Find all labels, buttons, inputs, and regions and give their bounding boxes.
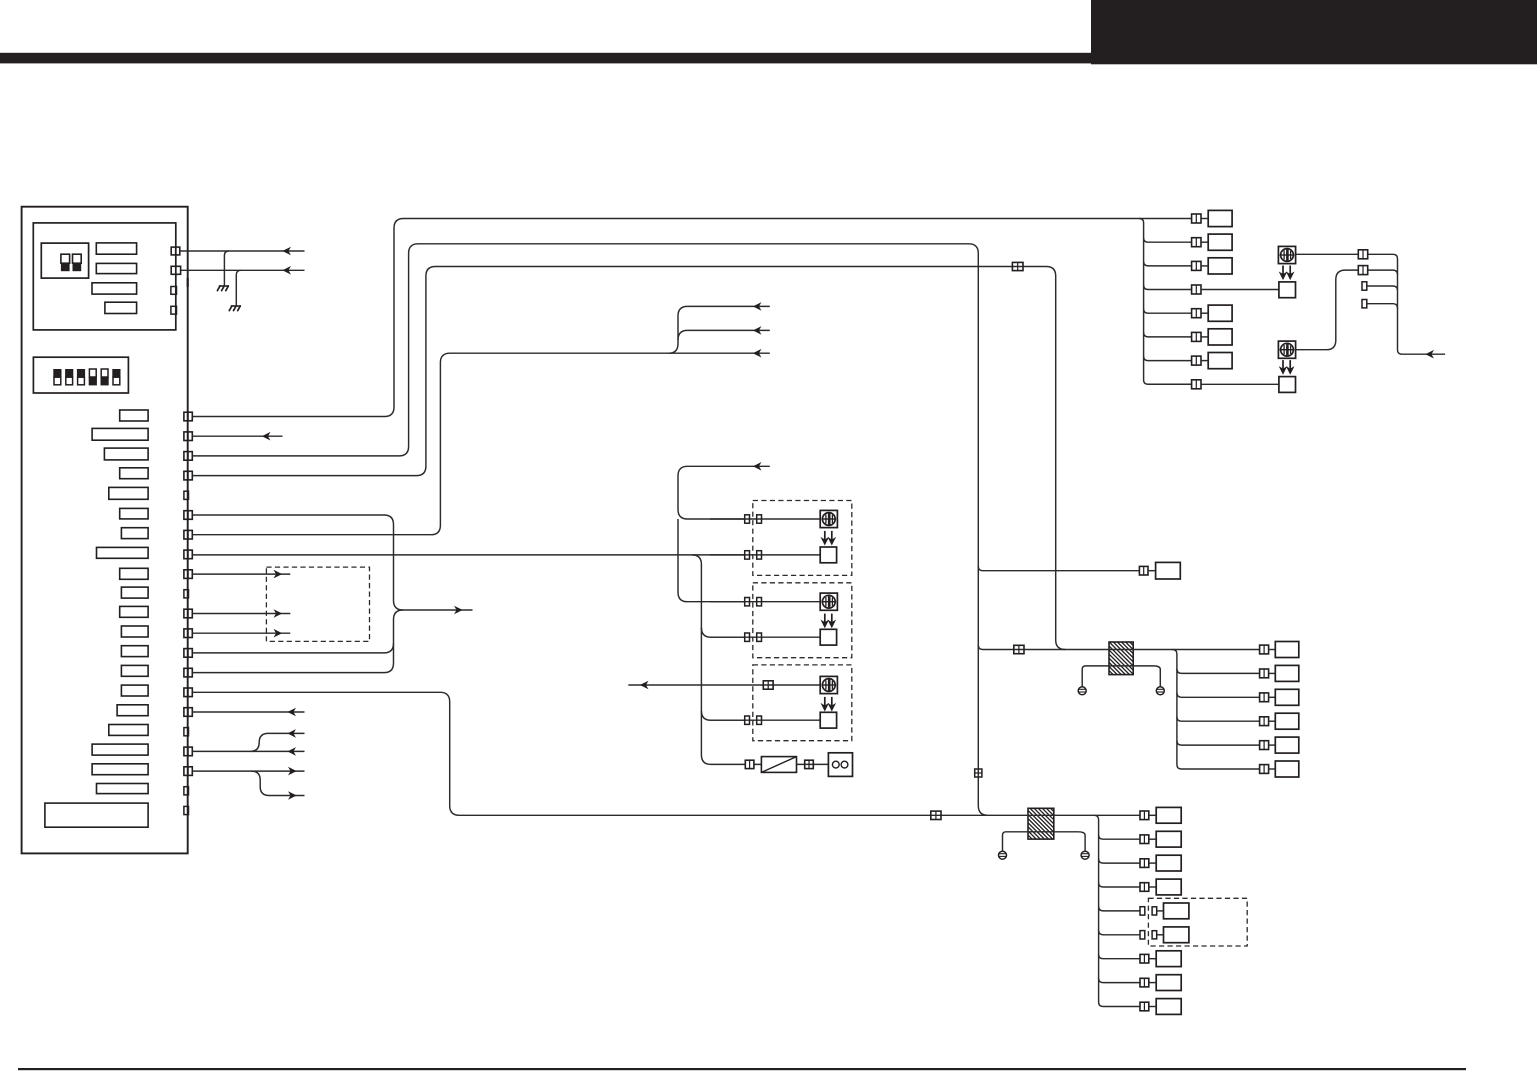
plug CN1-3 [1208, 258, 1232, 274]
arrows U2 [822, 614, 828, 628]
pin P3 [184, 452, 192, 461]
wire U1 sensor line [710, 518, 820, 520]
header title block [1091, 0, 1537, 64]
DIP switch B6 [112, 369, 120, 385]
filter FL2 [997, 808, 1114, 839]
wire branch I3 lower [251, 771, 304, 795]
wire M2 to bundle [1368, 270, 1398, 275]
wire CN3 stub6 [1157, 934, 1164, 936]
wire CN4 stub5 [1269, 744, 1276, 746]
wire net K2 (P14 to bracket) [192, 610, 403, 673]
filter FL1 [1076, 642, 1195, 675]
pin P15 [184, 688, 192, 697]
wire U2 sensor line [710, 601, 820, 603]
wire CN1 row2 [1144, 238, 1192, 243]
plug CN3-3 [1156, 855, 1181, 871]
wire CN2 stub [1148, 570, 1156, 572]
wire CN3 stub9 [1149, 1006, 1156, 1008]
wire net K1 (P6 to bracket) [192, 515, 472, 610]
plug CN3-5 [1164, 903, 1189, 919]
ground GC2 [1156, 687, 1164, 695]
pin A3 [171, 287, 177, 295]
label plate L15 [121, 685, 148, 696]
pin CN1-1 [1192, 214, 1201, 223]
pin CN1-5 [1192, 309, 1201, 318]
plug CN3-8 [1156, 975, 1181, 991]
ground G2 [229, 306, 241, 311]
DIP switch B4 [89, 369, 97, 385]
wire CN3 stub3 [1149, 862, 1156, 864]
wire CN1 stub3 [1201, 265, 1208, 267]
label plate L8 [97, 547, 149, 558]
arrow in E1a [754, 303, 760, 309]
pin A4 [171, 306, 177, 314]
label plate L10 [121, 587, 148, 598]
wire LED2 out [1296, 270, 1359, 350]
DIP switch B2 [65, 369, 73, 385]
label plate L6 [120, 508, 148, 519]
wire branch F1 to unit2 [701, 628, 744, 638]
arrow out K [455, 607, 461, 613]
DIP switch B5 [101, 369, 109, 385]
wire net I3 (P19) [192, 770, 304, 772]
header bar [0, 53, 1537, 64]
box LED1 lower [1279, 282, 1296, 298]
arrow in bundle [1427, 351, 1433, 357]
footer rule [18, 1068, 1466, 1070]
wire branch I2 upper [250, 733, 304, 751]
wire CN1-4 to LED1 box [1201, 289, 1279, 291]
wire CN3 stub2 [1149, 838, 1156, 840]
wire M1 to bundle [1368, 254, 1445, 354]
wire CN4 row5 [1177, 741, 1260, 746]
plug CN3-2 [1156, 831, 1181, 847]
ground G1 [217, 286, 229, 291]
plug CN4-4 [1275, 713, 1299, 729]
pin CN3-5 [1140, 907, 1145, 915]
bus CN4 vertical [1172, 650, 1259, 770]
pin CN3-5b [1152, 907, 1157, 915]
pin P20 [184, 787, 189, 795]
wire CN1 stub1 [1201, 218, 1208, 220]
plug CN3-9 [1156, 999, 1181, 1015]
wire junction E1 riser [669, 306, 770, 353]
wire U1 lower line [710, 554, 820, 556]
wire F1 drop [692, 555, 745, 765]
pin CN3-3 [1140, 859, 1149, 868]
arrow out G2 [275, 610, 281, 616]
bus CN1 vertical [1139, 219, 1192, 385]
pin M1 [1358, 250, 1367, 259]
box U3 lower [820, 712, 836, 728]
plug CN3-6 [1164, 927, 1189, 943]
DIP switch block SW-B [33, 357, 128, 393]
pin P11 [184, 609, 192, 618]
pin CN1-6 [1192, 332, 1201, 341]
bus CN3 vertical [1094, 815, 1140, 1006]
pin U1a [745, 515, 750, 523]
label plate A1 [96, 243, 136, 254]
wire FL2 loop [1003, 832, 1086, 852]
label plate L4 [120, 468, 148, 479]
pin J2 on H1 [931, 811, 941, 819]
label plate L11 [120, 606, 148, 617]
pin P4 [184, 471, 192, 480]
pin P10 [184, 590, 189, 598]
ground GC4 [1081, 851, 1089, 859]
pin P9 [184, 570, 192, 579]
wire FL1 loop [1082, 666, 1160, 687]
speaker SP1 [828, 753, 852, 777]
wire CN1 row6 [1144, 332, 1192, 337]
dashed box unit U1 [753, 501, 852, 576]
wire CN4 stub3 [1269, 696, 1276, 698]
label plate L1 [120, 410, 148, 421]
pin A1 [171, 247, 180, 255]
wire net I1 (P16) [192, 711, 304, 713]
pin P21 [184, 806, 189, 814]
dashed box unit U2 [753, 583, 852, 658]
plug CN1-6 [1208, 329, 1232, 345]
wire CN4 row4 [1177, 717, 1260, 722]
wire LED1 out [1296, 253, 1359, 255]
wire CN3 stub1 [1149, 814, 1156, 816]
pin P13 [184, 649, 192, 658]
label plate L14 [121, 665, 148, 676]
pin P17 [184, 728, 189, 736]
pin A2 [171, 266, 180, 274]
arrow out I3 [289, 768, 295, 774]
pin CN3-8 [1140, 978, 1149, 987]
arrow in I2b [289, 730, 295, 736]
plug CN1-2 [1208, 234, 1232, 250]
sensor LED2 [1278, 341, 1295, 358]
plug CN4-6 [1275, 761, 1299, 777]
wire CN1 row4 [1144, 285, 1192, 290]
pin V1a [975, 769, 982, 777]
wire net E2 head [678, 466, 770, 519]
pin CN1-4 [1192, 285, 1201, 294]
pin P8 [184, 550, 192, 559]
pin CN1-8 [1192, 380, 1201, 389]
main unit box [22, 207, 188, 854]
wire net E1 (P7) [192, 353, 770, 535]
dashed box BL2 [1148, 898, 1247, 946]
sensor LED1 [1278, 246, 1295, 263]
wire net D3 (P4 to V2) [192, 267, 1065, 650]
plug CN2 [1156, 562, 1181, 579]
wire ground branch A2 [236, 270, 241, 305]
arrow out I3b [289, 792, 295, 798]
wire net VCC-A (pin A1) [180, 250, 305, 252]
arrow in E1b [754, 327, 760, 333]
pin CN3-2 [1140, 835, 1149, 844]
wire CN4 stub6 [1269, 768, 1276, 770]
pin M3 [1362, 282, 1367, 290]
plug CN4-3 [1275, 689, 1299, 705]
wire CN1 stub2 [1201, 241, 1208, 243]
plug CN1-5 [1208, 305, 1232, 321]
pin U2b [757, 598, 762, 606]
wire CN4 row2 [1177, 669, 1260, 674]
box U2 lower [820, 629, 836, 645]
wire CN3 stub7 [1149, 958, 1156, 960]
wire CN4 row3 [1177, 693, 1260, 698]
pin P1 [184, 412, 192, 421]
plug CN4-5 [1275, 737, 1299, 753]
arrow in D1 [263, 433, 269, 439]
wire fuse line [754, 763, 829, 765]
wire CN3 stub8 [1149, 982, 1156, 984]
arrow in VCC-B [284, 267, 290, 273]
pin U3c [745, 716, 750, 724]
arrows LED1 [1280, 266, 1286, 280]
fuse F1 (slash box) [761, 757, 796, 773]
label plate A4 [105, 302, 137, 313]
pin CN4-6 [1260, 765, 1269, 774]
wire CN3 row2 [1099, 835, 1140, 840]
dashed block BL1 [266, 567, 369, 641]
wire net G1 (P9) [192, 573, 290, 575]
wire net D1 (P2) [192, 435, 282, 437]
wire net G3 (P12) [192, 632, 290, 634]
pin F1b [805, 760, 814, 768]
label plate L20 [97, 784, 149, 794]
ground GC3 [999, 851, 1007, 859]
wire CN4 stub4 [1269, 720, 1276, 722]
pin CN4-3 [1260, 693, 1269, 702]
pin P12 [184, 629, 192, 638]
wire CN4 stub2 [1269, 672, 1276, 674]
wire net D2 (P3 to V1) [192, 244, 988, 816]
wire branch F1 to unit3 [701, 711, 744, 721]
DIP switch B1 [53, 369, 61, 385]
wire branch E1 mid [678, 330, 770, 340]
arrow in E1c [754, 350, 760, 356]
wire net H1 (P15 to CN3) [192, 692, 1140, 815]
arrow in I2 [289, 748, 295, 754]
sensor U3 [820, 676, 837, 693]
pin U1c [745, 551, 750, 559]
label plate A3 [92, 283, 137, 294]
wire net D0 (P1 to CN1) [192, 219, 1191, 417]
label plate L12 [121, 626, 148, 637]
pin CN3-6b [1152, 931, 1157, 939]
pin P19 [184, 767, 192, 776]
edge tick [187, 278, 189, 287]
wire CN3 row4 [1099, 883, 1140, 888]
pin CN4-4 [1260, 717, 1269, 726]
wire net VCC-B (pin A2) [181, 269, 305, 271]
pin P18 [184, 747, 192, 756]
DIP switch B3 [77, 369, 85, 385]
pin CN4-2 [1260, 669, 1269, 678]
wire M4 to bundle [1367, 304, 1398, 309]
pin P16 [184, 708, 192, 717]
wire ground branch A1 [224, 251, 229, 285]
wire net F1 (P8 to lamp units) [192, 554, 744, 556]
wire CN1 stub6 [1201, 336, 1208, 338]
wire CN3 row7 [1099, 954, 1140, 959]
pin P5 [184, 491, 189, 499]
plug CN3-1 [1156, 807, 1181, 823]
wire U3 lower line [710, 719, 820, 721]
pin M4 [1362, 300, 1367, 308]
pin P14 [184, 668, 192, 677]
arrow out G1 [275, 571, 281, 577]
wire CN1 row7 [1144, 356, 1192, 361]
sub-board box [33, 223, 176, 330]
ground GC1 [1078, 687, 1086, 695]
pin CN3-6 [1140, 931, 1145, 939]
pin M2 [1358, 266, 1367, 275]
plug CN1-1 [1208, 210, 1232, 226]
wire CN4 stub1 [1269, 649, 1276, 651]
switch block SW-A [41, 243, 88, 278]
label plate L2 [92, 428, 148, 440]
pin U1b [757, 515, 762, 523]
pin U2a [745, 598, 750, 606]
arrow in E2 [754, 463, 760, 469]
plug CN4-2 [1275, 665, 1299, 681]
wire net E2 to U2 [678, 519, 745, 602]
wire CN1 row5 [1144, 309, 1192, 314]
label plate L17 [109, 725, 148, 736]
pin P2 [184, 432, 192, 441]
pin CN3-1 [1140, 811, 1149, 820]
wire V1 to CN2 [978, 566, 1139, 571]
wire net I2 (P18) [192, 750, 304, 752]
label plate A2 [96, 263, 136, 273]
wire U3 sensor line [628, 684, 820, 686]
sensor U1 [820, 510, 837, 527]
arrow in VCC-A [284, 248, 290, 254]
wire CN1 row3 [1144, 261, 1192, 266]
switch SW-A1 [61, 254, 70, 271]
label plate L19 [92, 764, 148, 775]
label plate L7 [121, 528, 148, 539]
arrow out G3 [275, 630, 281, 636]
plug CN1-7 [1208, 353, 1232, 369]
plug CN3-7 [1156, 951, 1181, 967]
plug CN4-1 [1275, 642, 1299, 658]
wire CN1 stub5 [1201, 312, 1208, 314]
label plate L18 [92, 744, 148, 755]
wire M3 to bundle [1367, 286, 1398, 291]
pin P7 [184, 530, 192, 539]
wire CN3 row5 [1099, 906, 1140, 911]
pin CN3-4 [1140, 883, 1149, 892]
pin P6 [184, 511, 192, 520]
pin CN3-9 [1140, 1002, 1149, 1011]
box LED2 lower [1279, 377, 1296, 393]
sensor U2 [820, 593, 837, 610]
dashed box unit U3 [753, 665, 852, 741]
pin CN4-1 [1260, 645, 1269, 654]
wire CN3 stub4 [1149, 886, 1156, 888]
wire CN3 stub5 [1157, 910, 1164, 912]
pin J3 [1014, 645, 1024, 653]
pin U3a [763, 681, 773, 689]
arrow out U3 [641, 682, 647, 688]
pin CN3-7 [1140, 954, 1149, 963]
wire U2 lower line [710, 636, 820, 638]
label plate L21 [45, 803, 148, 827]
pin CN4-5 [1260, 741, 1269, 750]
label plate L16 [117, 705, 148, 716]
pin U3d [757, 716, 762, 724]
pin F1a [745, 760, 754, 768]
pin CN1-2 [1192, 238, 1201, 247]
label plate L5 [109, 487, 148, 499]
wire net K3 (P13 to bracket) [192, 643, 393, 653]
wire CN3 row3 [1099, 859, 1140, 864]
pin J1 on D3 [1012, 262, 1023, 270]
arrows U1 [822, 531, 828, 545]
arrows LED2 [1280, 360, 1286, 374]
pin U2d [757, 633, 762, 641]
pin CN1-3 [1192, 261, 1201, 270]
label plate L9 [120, 568, 148, 579]
wire net G2 (P11) [192, 613, 290, 615]
plug CN3-4 [1156, 879, 1181, 895]
pin U2c [745, 633, 750, 641]
wire CN3 row8 [1099, 978, 1140, 983]
wire CN1 stub7 [1201, 360, 1208, 362]
pin U1d [757, 551, 762, 559]
label plate L13 [121, 646, 148, 657]
switch SW-A2 [73, 254, 82, 271]
arrows U3 [822, 697, 828, 711]
wire V1 to filter line [978, 645, 1259, 650]
box U1 lower [820, 547, 836, 563]
wire CN3 row6 [1099, 930, 1140, 935]
pin CN1-7 [1192, 356, 1201, 365]
pin CN2 [1139, 566, 1148, 575]
label plate L3 [104, 448, 148, 460]
wire CN1-8 to LED2 box [1201, 383, 1279, 385]
arrow in I1 [289, 709, 295, 715]
